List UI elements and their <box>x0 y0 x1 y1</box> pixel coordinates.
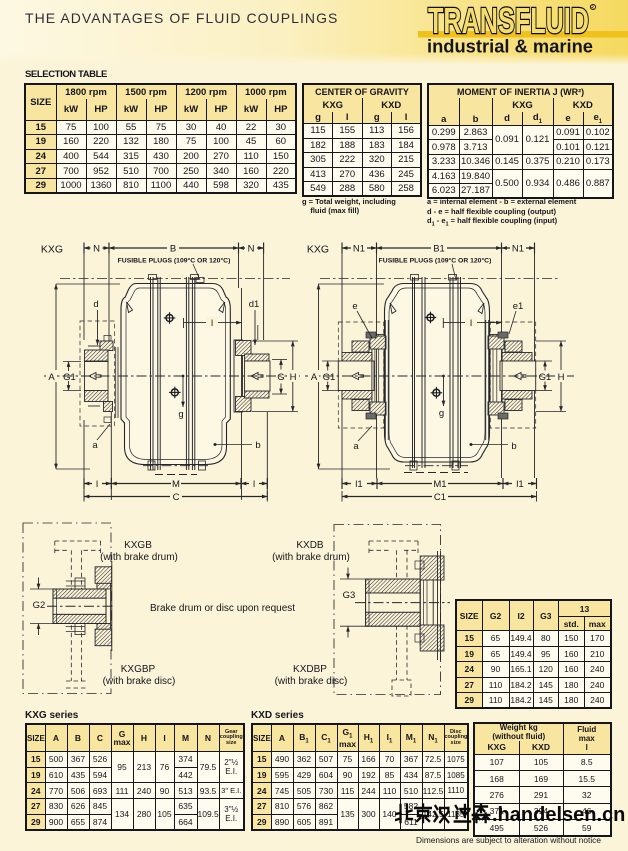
svg-text:l1: l1 <box>355 479 362 490</box>
svg-text:b: b <box>511 441 516 452</box>
svg-text:G1: G1 <box>323 372 336 383</box>
svg-text:A: A <box>48 372 55 383</box>
svg-text:e1: e1 <box>513 301 524 312</box>
svg-text:B: B <box>170 244 176 255</box>
svg-text:.handelsen.cn: .handelsen.cn <box>492 804 625 826</box>
svg-text:industrial & marine: industrial & marine <box>427 37 593 57</box>
svg-text:G2: G2 <box>33 600 46 611</box>
svg-text:l: l <box>253 479 255 490</box>
svg-text:N: N <box>93 244 100 255</box>
svg-text:M1: M1 <box>433 479 446 490</box>
svg-text:N1: N1 <box>512 244 524 255</box>
svg-text:G1: G1 <box>539 372 552 383</box>
svg-text:FUSIBLE PLUGS (109°C OR 120°C): FUSIBLE PLUGS (109°C OR 120°C) <box>118 257 231 265</box>
svg-text:A: A <box>311 372 318 383</box>
svg-text:G: G <box>277 372 284 383</box>
svg-text:H: H <box>290 372 297 383</box>
svg-text:TRANSFLUID: TRANSFLUID <box>428 0 589 41</box>
svg-text:KXG: KXG <box>41 244 63 256</box>
svg-text:G3: G3 <box>343 590 356 601</box>
svg-text:B1: B1 <box>433 244 445 255</box>
svg-text:l: l <box>470 318 472 329</box>
svg-text:l1: l1 <box>516 479 523 490</box>
svg-text:KXG: KXG <box>307 244 329 256</box>
svg-text:g: g <box>439 408 444 419</box>
svg-text:C1: C1 <box>434 492 446 503</box>
svg-text:N1: N1 <box>353 244 365 255</box>
svg-text:M: M <box>172 479 180 490</box>
svg-text:FUSIBLE PLUGS (109°C OR 120°C): FUSIBLE PLUGS (109°C OR 120°C) <box>379 257 492 265</box>
svg-text:N: N <box>248 244 255 255</box>
svg-text:C: C <box>173 492 180 503</box>
svg-text:G1: G1 <box>63 372 76 383</box>
svg-text:d: d <box>93 299 98 310</box>
svg-text:b: b <box>255 440 260 451</box>
svg-text:d1: d1 <box>249 299 260 310</box>
svg-text:e: e <box>352 301 357 312</box>
svg-text:H: H <box>558 372 565 383</box>
svg-text:l: l <box>96 479 98 490</box>
svg-text:R: R <box>590 5 594 11</box>
svg-text:l: l <box>211 318 213 329</box>
svg-text:a: a <box>92 440 98 451</box>
svg-text:g: g <box>178 409 183 420</box>
svg-text:a: a <box>353 441 359 452</box>
